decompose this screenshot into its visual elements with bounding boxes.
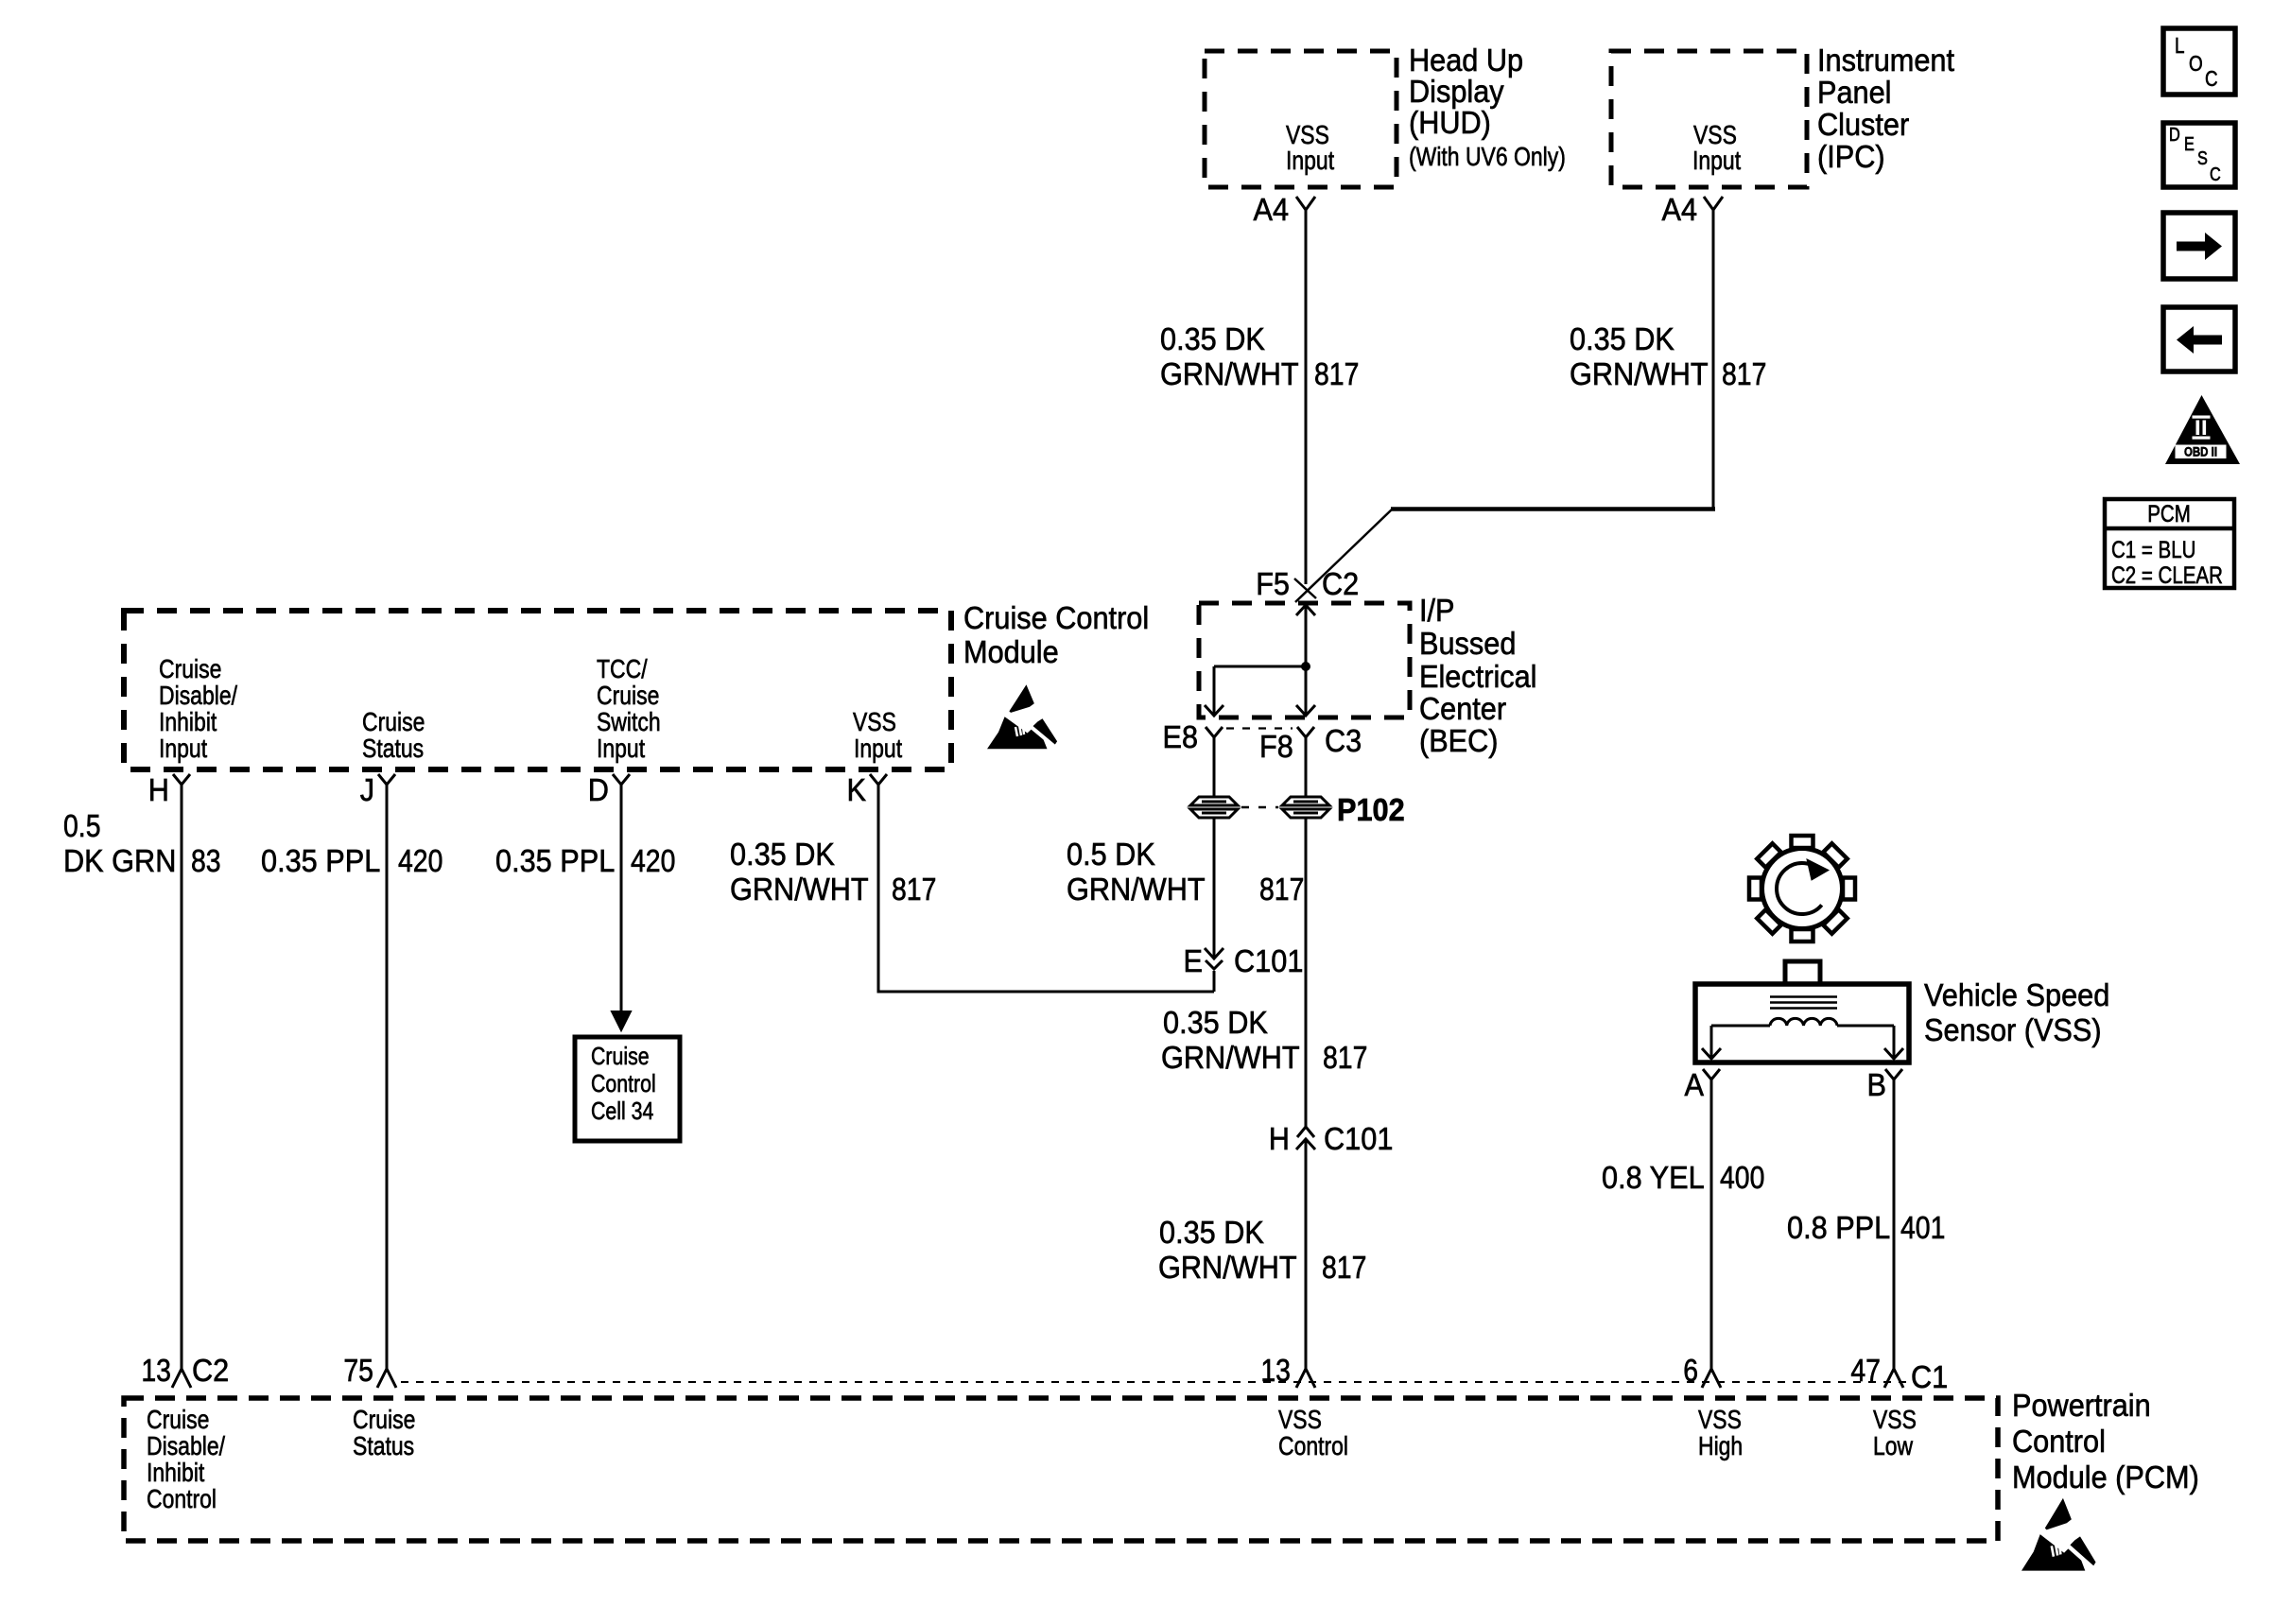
- svg-text:E8: E8: [1163, 719, 1199, 754]
- svg-text:13: 13: [1260, 1353, 1291, 1388]
- svg-text:C2: C2: [192, 1353, 229, 1388]
- svg-text:B: B: [1867, 1067, 1887, 1102]
- svg-text:817: 817: [1323, 1040, 1367, 1075]
- svg-text:0.8 YEL: 0.8 YEL: [1602, 1160, 1705, 1195]
- svg-text:401: 401: [1900, 1210, 1945, 1245]
- svg-text:Sensor (VSS): Sensor (VSS): [1924, 1012, 2102, 1047]
- svg-text:47: 47: [1850, 1353, 1881, 1388]
- svg-text:S: S: [2197, 148, 2208, 169]
- svg-text:Module (PCM): Module (PCM): [2012, 1460, 2199, 1494]
- svg-text:Control: Control: [147, 1484, 217, 1513]
- svg-text:Instrument: Instrument: [1817, 43, 1954, 78]
- svg-text:C1 = BLU: C1 = BLU: [2111, 537, 2195, 563]
- svg-text:E: E: [1184, 943, 1204, 978]
- svg-text:C2: C2: [1322, 566, 1359, 601]
- svg-text:0.35 DK: 0.35 DK: [730, 837, 835, 872]
- svg-text:Input: Input: [159, 734, 207, 763]
- svg-text:Input: Input: [1692, 146, 1741, 175]
- svg-text:GRN/WHT: GRN/WHT: [730, 872, 869, 907]
- svg-text:Cruise: Cruise: [353, 1405, 415, 1434]
- svg-text:VSS: VSS: [853, 707, 896, 736]
- svg-text:Control: Control: [2012, 1424, 2106, 1459]
- svg-text:Cruise Control: Cruise Control: [963, 600, 1149, 635]
- svg-text:Display: Display: [1409, 74, 1504, 109]
- svg-text:13: 13: [141, 1353, 171, 1388]
- svg-text:Inhibit: Inhibit: [159, 707, 217, 736]
- svg-text:Input: Input: [1286, 146, 1334, 175]
- svg-text:Disable/: Disable/: [147, 1431, 225, 1460]
- svg-text:DK GRN: DK GRN: [63, 843, 176, 878]
- svg-text:Cruise: Cruise: [159, 654, 221, 683]
- svg-text:Control: Control: [1278, 1431, 1348, 1460]
- svg-text:Low: Low: [1873, 1431, 1914, 1460]
- svg-text:400: 400: [1720, 1160, 1764, 1195]
- svg-text:PCM: PCM: [2147, 501, 2191, 527]
- svg-text:L: L: [2175, 33, 2185, 58]
- svg-text:A: A: [1685, 1067, 1705, 1102]
- svg-text:Vehicle Speed: Vehicle Speed: [1924, 977, 2109, 1012]
- svg-text:0.35 DK: 0.35 DK: [1160, 321, 1265, 356]
- svg-text:0.5: 0.5: [63, 808, 101, 843]
- svg-text:GRN/WHT: GRN/WHT: [1160, 356, 1299, 391]
- svg-text:Disable/: Disable/: [159, 681, 237, 710]
- svg-text:(BEC): (BEC): [1419, 723, 1499, 758]
- svg-text:P102: P102: [1337, 792, 1405, 827]
- svg-text:Bussed: Bussed: [1419, 626, 1516, 661]
- svg-text:F5: F5: [1256, 566, 1290, 601]
- svg-text:C2 = CLEAR: C2 = CLEAR: [2111, 562, 2223, 589]
- svg-text:Switch: Switch: [597, 707, 661, 736]
- svg-text:VSS: VSS: [1873, 1405, 1917, 1434]
- svg-text:817: 817: [1722, 356, 1766, 391]
- svg-text:J: J: [360, 772, 374, 807]
- svg-text:Electrical: Electrical: [1419, 659, 1537, 694]
- svg-text:A4: A4: [1254, 192, 1290, 227]
- svg-text:(IPC): (IPC): [1817, 139, 1885, 174]
- svg-text:D: D: [588, 772, 609, 807]
- svg-text:0.35 DK: 0.35 DK: [1570, 321, 1674, 356]
- svg-text:0.5 DK: 0.5 DK: [1067, 837, 1155, 872]
- svg-text:(With UV6 Only): (With UV6 Only): [1409, 142, 1566, 171]
- svg-text:OBD II: OBD II: [2184, 444, 2217, 459]
- svg-text:C: C: [2210, 164, 2221, 185]
- svg-text:E: E: [2184, 134, 2195, 155]
- svg-text:Head Up: Head Up: [1409, 43, 1523, 78]
- svg-text:817: 817: [1322, 1250, 1366, 1285]
- svg-text:0.35 DK: 0.35 DK: [1163, 1005, 1268, 1040]
- svg-text:H: H: [148, 772, 169, 807]
- svg-text:Cruise: Cruise: [147, 1405, 209, 1434]
- svg-text:75: 75: [343, 1353, 373, 1388]
- svg-text:K: K: [847, 772, 867, 807]
- svg-text:Cell 34: Cell 34: [591, 1097, 653, 1125]
- svg-text:817: 817: [892, 872, 936, 907]
- svg-text:H: H: [1269, 1121, 1290, 1156]
- svg-text:Center: Center: [1419, 691, 1506, 726]
- svg-text:Module: Module: [963, 634, 1059, 669]
- svg-text:83: 83: [191, 843, 221, 878]
- svg-text:0.35 PPL: 0.35 PPL: [261, 843, 380, 878]
- svg-text:0.8 PPL: 0.8 PPL: [1787, 1210, 1890, 1245]
- svg-text:GRN/WHT: GRN/WHT: [1161, 1040, 1300, 1075]
- svg-text:817: 817: [1314, 356, 1359, 391]
- svg-text:Status: Status: [362, 734, 424, 763]
- svg-text:420: 420: [631, 843, 675, 878]
- svg-text:Cruise: Cruise: [591, 1042, 650, 1070]
- svg-text:VSS: VSS: [1698, 1405, 1742, 1434]
- svg-text:Control: Control: [591, 1069, 656, 1097]
- svg-text:Input: Input: [597, 734, 645, 763]
- svg-text:0.35 DK: 0.35 DK: [1159, 1215, 1264, 1250]
- svg-text:Panel: Panel: [1817, 75, 1892, 110]
- svg-text:TCC/: TCC/: [597, 654, 648, 683]
- svg-text:VSS: VSS: [1278, 1405, 1322, 1434]
- svg-text:Status: Status: [353, 1431, 414, 1460]
- svg-text:(HUD): (HUD): [1409, 105, 1491, 140]
- svg-text:High: High: [1698, 1431, 1743, 1460]
- svg-text:Inhibit: Inhibit: [147, 1458, 204, 1487]
- svg-text:Powertrain: Powertrain: [2012, 1388, 2151, 1423]
- svg-text:Input: Input: [854, 734, 902, 763]
- svg-text:A4: A4: [1662, 192, 1698, 227]
- svg-text:C3: C3: [1325, 723, 1362, 758]
- svg-text:C101: C101: [1234, 943, 1303, 978]
- svg-text:GRN/WHT: GRN/WHT: [1158, 1250, 1297, 1285]
- svg-text:0.35 PPL: 0.35 PPL: [495, 843, 615, 878]
- svg-text:Cluster: Cluster: [1817, 107, 1909, 142]
- svg-text:C101: C101: [1324, 1121, 1393, 1156]
- svg-text:F8: F8: [1259, 729, 1293, 764]
- svg-text:817: 817: [1259, 872, 1304, 907]
- svg-text:420: 420: [398, 843, 442, 878]
- svg-text:D: D: [2169, 125, 2180, 146]
- svg-text:Cruise: Cruise: [597, 681, 659, 710]
- svg-text:GRN/WHT: GRN/WHT: [1570, 356, 1709, 391]
- svg-text:I/P: I/P: [1419, 593, 1455, 628]
- svg-text:GRN/WHT: GRN/WHT: [1067, 872, 1206, 907]
- svg-text:C1: C1: [1911, 1359, 1948, 1394]
- svg-text:6: 6: [1683, 1353, 1698, 1388]
- svg-text:C: C: [2205, 66, 2218, 91]
- svg-text:Cruise: Cruise: [362, 707, 425, 736]
- svg-text:O: O: [2189, 51, 2203, 76]
